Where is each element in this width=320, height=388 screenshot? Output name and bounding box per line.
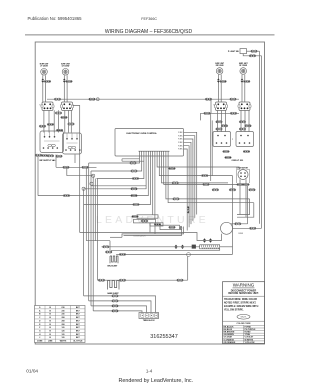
wire EOC right exit 5 [184, 146, 190, 228]
wire EOC pin 7 down [152, 156, 154, 215]
surface unit right-front [240, 68, 247, 75]
wire lock motor feed drop [239, 167, 241, 170]
svg-text:LOCK MOTOR: LOCK MOTOR [236, 168, 248, 170]
disconnect lamp lead 2 [209, 238, 212, 242]
wire right-rear burner lead R [220, 74, 222, 102]
wire switch-to-control link L4 [58, 110, 60, 132]
watermark [96, 214, 209, 226]
footer page number [146, 368, 153, 373]
wire switch-to-control link L2 [48, 110, 50, 132]
svg-text:P-BK: P-BK [178, 139, 183, 141]
connector S3 feed [204, 112, 211, 114]
connector lock motor 1 [237, 183, 244, 185]
connector pair C1 [216, 121, 223, 123]
svg-text:COLOR CODE: COLOR CODE [236, 323, 251, 325]
svg-text:LR 1250W: LR 1250W [62, 66, 70, 68]
svg-text:T-TAN: T-TAN [245, 333, 251, 336]
surface switch S1 designator [39, 105, 41, 107]
connector pair A5 [68, 123, 75, 125]
connector broil out [119, 253, 126, 255]
disconnect latch [180, 226, 183, 230]
door lock motor M1 [238, 170, 248, 180]
wire terminal block feed L1 [84, 296, 156, 313]
warning title [233, 283, 255, 288]
wire pin stub a [122, 158, 140, 160]
surface unit left-front label 2 [40, 66, 48, 68]
wire left-rear burner lead R [66, 75, 68, 102]
svg-text:EXAMPLE: GREEN WIRE WITH: EXAMPLE: GREEN WIRE WITH [224, 305, 259, 308]
oven light switch box [240, 49, 247, 54]
connector EOC left 4 [131, 188, 138, 190]
page header model number [141, 17, 157, 21]
wire EOC pin 2 to left [91, 156, 142, 171]
surface unit right-rear [216, 68, 223, 75]
wire bake riser [187, 257, 189, 281]
warning divider 2 [223, 320, 265, 322]
junction node J1 [92, 174, 95, 177]
connector right V5 [249, 189, 256, 191]
svg-text:GY-GRAY: GY-GRAY [224, 336, 233, 339]
connector pair D1 [223, 150, 230, 152]
svg-text:SURF. UNIT: SURF. UNIT [40, 64, 49, 66]
connector EOC left 2 [131, 170, 138, 172]
connector relay out 1 [251, 50, 258, 52]
electronic oven control U1 [115, 129, 184, 157]
connector right-rear lead R [220, 80, 227, 82]
latch switch bar 3 [150, 223, 163, 226]
junction node J2 [90, 182, 93, 185]
svg-text:P-BK: P-BK [178, 132, 183, 134]
broil element E1 [110, 256, 118, 263]
wire K boxes drop 2 [74, 155, 76, 164]
svg-text:01/04: 01/04 [26, 368, 38, 373]
wire S3 feed [201, 112, 240, 114]
wire right-rear burner lead L [217, 74, 219, 102]
wire left bundle 7 [97, 179, 99, 281]
wire EOC right exit 1 [184, 132, 197, 214]
wire terminal block feed G [93, 311, 142, 313]
wire left-front burner lead L [42, 75, 44, 102]
svg-text:FEF366C: FEF366C [141, 17, 157, 21]
svg-text:BK7: BK7 [76, 334, 80, 336]
connector top bus [205, 98, 212, 100]
svg-text:J: J [39, 337, 40, 339]
connector pair D2 [243, 150, 250, 152]
wire mid link [92, 185, 147, 187]
svg-text:208: 208 [62, 317, 65, 319]
surface unit right-front label [239, 63, 248, 65]
surface switch S2 (left-rear) terminals [60, 103, 73, 109]
wire right vertical V1 [210, 113, 212, 181]
svg-text:BRL ELMNT: BRL ELMNT [108, 265, 119, 267]
connector lower bundle [187, 207, 189, 214]
svg-text:BK7: BK7 [76, 324, 80, 326]
wire top bus to right switches [47, 98, 239, 100]
surface unit left-rear [62, 69, 69, 76]
wire broil lead up [109, 241, 111, 251]
junction node bus [96, 98, 99, 101]
latch switch bar 1 [137, 215, 158, 218]
connector pair B4 [56, 155, 63, 157]
wire EOC pin 3 to left [97, 156, 144, 179]
wire broil supply [102, 246, 200, 248]
warning title underline [233, 287, 255, 289]
tracer example connector [237, 315, 250, 320]
connector pair C2 [221, 125, 228, 127]
wire left bundle 1 [83, 189, 85, 296]
wire S2 to bundle [73, 106, 80, 233]
svg-text:BK7: BK7 [76, 314, 80, 316]
wire EOC pin 11 to right [162, 156, 229, 183]
wire switch-to-control link L6 [68, 110, 70, 132]
connector EOC right b [201, 174, 208, 176]
EOC right pin label 1 [178, 132, 183, 134]
label oven sw [232, 160, 244, 162]
svg-text:ZONE: ZONE [37, 341, 43, 343]
junction node J4 [187, 253, 191, 257]
wattage legend table [35, 306, 86, 343]
wire left-rear burner lead L [63, 75, 65, 102]
connector latch 3 [154, 223, 161, 225]
terminal block lugs [141, 314, 158, 318]
EOC right pin label 3 [178, 139, 183, 141]
EOC right pin label 4 [178, 142, 183, 144]
wire EOC right exit 2 [184, 136, 195, 218]
svg-text:230: 230 [62, 314, 65, 316]
wire left-front burner lead R [45, 75, 47, 102]
svg-text:BAKE ELMNT: BAKE ELMNT [107, 292, 119, 295]
wire right switch link R2 [221, 110, 223, 132]
disconnect broil supply 1 [175, 245, 178, 249]
svg-text:RF 1250W: RF 1250W [239, 65, 247, 67]
disconnect plug left-front lead L [41, 78, 44, 82]
svg-text:WARNING: WARNING [233, 283, 255, 288]
latch switch bar 2 [134, 219, 156, 223]
wire EOC pin 5 to left [38, 156, 148, 196]
page title [105, 29, 193, 35]
svg-text:SURF. UNIT: SURF. UNIT [215, 63, 224, 65]
header rule [25, 34, 275, 36]
wire terminal block feed N [89, 301, 151, 313]
footer date [26, 368, 38, 373]
warning paragraph line 3 [224, 305, 259, 308]
surface switch S3 designator [213, 105, 215, 107]
wire bus drop to S3 feed [210, 99, 212, 113]
EOC right pin label 6 [178, 149, 183, 151]
svg-text:Rendered by LeadVenture, Inc.: Rendered by LeadVenture, Inc. [118, 378, 193, 384]
connector pair A1 [55, 112, 62, 114]
wire left bundle 5 [92, 176, 94, 311]
svg-text:BK-BLACK: BK-BLACK [224, 325, 235, 328]
svg-text:BK7: BK7 [76, 310, 80, 312]
warmer element E3 [200, 245, 220, 249]
connector left-rear lead R [66, 80, 73, 82]
wire EOC pin 1 to left [89, 156, 140, 163]
connector pair A6 [56, 129, 63, 131]
connector EOC left 3 [132, 177, 139, 179]
connector terminal feed G [112, 310, 119, 312]
connector right-front lead R [243, 80, 250, 82]
connector terminal feed L1 [112, 295, 119, 297]
wire oven lamp feed 1 [231, 223, 248, 225]
wire EOC pin 6 to left [84, 156, 151, 205]
connector latch 1 [132, 215, 139, 217]
svg-text:120: 120 [62, 337, 65, 339]
wire broil out [116, 253, 120, 255]
wire switch-to-control link L3 [53, 110, 55, 132]
latch cluster label [134, 235, 146, 238]
wire right-front burner lead L [241, 74, 243, 102]
wire EOC right exit 3 [184, 139, 193, 221]
bake element E2 [108, 281, 120, 290]
connector bus S3-S4 link [230, 98, 237, 100]
surface switch S3 (right-rear) terminals [214, 103, 227, 109]
svg-text:208: 208 [62, 324, 65, 326]
connector S3-S4 feed link [230, 112, 237, 114]
wire EOC pin 9 to right [157, 156, 239, 167]
svg-text:LINE: LINE [48, 341, 53, 343]
bake element label [107, 292, 119, 295]
svg-text:BK7: BK7 [76, 331, 80, 333]
svg-text:P-BK: P-BK [178, 149, 183, 151]
connector terminal feed N [112, 300, 119, 302]
connector EOC left 6 [133, 203, 140, 205]
wire switch-to-control link L5 [64, 110, 66, 132]
wire right bus 1 [259, 51, 261, 224]
connector relay out 2 [249, 55, 256, 57]
EOC pin header P1 [139, 151, 170, 155]
wire latch run A2 tail [110, 236, 122, 238]
wire latch run A3 [124, 229, 182, 236]
diagram border frame [35, 42, 264, 344]
connector oven lamp 1 [235, 223, 242, 225]
svg-text:INF SUPPLY VAL.: INF SUPPLY VAL. [40, 159, 57, 162]
connector pair D3 [225, 156, 232, 158]
svg-text:P. LIGHT SW.: P. LIGHT SW. [228, 51, 240, 53]
svg-text:230: 230 [62, 310, 65, 312]
wire EOC pin 12 to right [164, 156, 248, 185]
oven switch box R1 terminals [216, 135, 228, 144]
wire EOC pin 13 to right [166, 156, 250, 199]
connector pair C4 [239, 121, 246, 123]
svg-text:OR-ORANGE: OR-ORANGE [224, 341, 237, 344]
wire switch-to-control link L1 [43, 110, 45, 132]
svg-text:DOOR LATCH: DOOR LATCH [134, 235, 146, 238]
oven switch box R2 [236, 132, 254, 147]
connector bus S1-S2 link [54, 98, 61, 100]
connector left-front lead R [44, 80, 51, 82]
oven lamp label [238, 233, 244, 235]
wire K boxes drop 1 [55, 155, 57, 168]
wire oven lamp feed 2 [233, 227, 262, 229]
wire EOC right exit 6 [184, 149, 188, 231]
svg-text:230: 230 [61, 307, 64, 309]
svg-text:BK7: BK7 [76, 337, 80, 339]
connector bus mid [89, 98, 96, 100]
svg-text:BK7: BK7 [76, 307, 80, 309]
surface switch S2 (left-rear) [62, 102, 73, 111]
wire left bundle 4 [90, 171, 92, 306]
connector inf common 1 [63, 166, 70, 168]
surface switch S1 (left-front) [42, 102, 53, 111]
connector right V3 [229, 189, 236, 191]
svg-text:OVEN: OVEN [238, 233, 244, 235]
wire lock motor lead 1 [239, 179, 241, 214]
lock motor bracket [237, 170, 250, 184]
wire right vertical V4 [247, 184, 249, 223]
diagram part number [150, 334, 178, 340]
wire latch run A2 [122, 227, 184, 238]
svg-text:Publication No: 5995401865: Publication No: 5995401865 [28, 16, 83, 21]
svg-text:LEADVENTURE: LEADVENTURE [96, 214, 209, 226]
svg-text:BK7: BK7 [76, 317, 80, 319]
connector pair B3 [47, 155, 54, 157]
connector EOC right c [172, 182, 179, 184]
latch switch bar 4 [160, 225, 180, 229]
disconnect broil lead [105, 251, 112, 253]
disconnect plug right-rear lead L [217, 78, 220, 82]
svg-text:TERM. BLOCK: TERM. BLOCK [143, 320, 155, 322]
connector pair C5 [245, 125, 252, 127]
wire warmer to lamp [220, 246, 233, 248]
label between R boxes [232, 139, 234, 141]
wire bake out [98, 279, 188, 281]
surface unit left-front label [40, 64, 49, 66]
warning box frame [223, 282, 265, 344]
oven switch box R2 terminals [239, 135, 251, 144]
svg-text:P-BK: P-BK [178, 135, 183, 137]
connector EOC right e [173, 198, 180, 200]
wire broil to bus [125, 253, 233, 255]
wire left bundle 6 [94, 179, 96, 241]
connector right V2b [212, 189, 219, 191]
connector EOC left 5 [131, 194, 138, 196]
wire right switch link R4 [240, 110, 242, 132]
disconnect lamp lead [203, 238, 206, 242]
wire main run B [86, 240, 110, 242]
disconnect plug right-front lead L [241, 78, 244, 82]
connector terminal feed L2 [112, 305, 119, 307]
svg-text:RR 1250W: RR 1250W [216, 65, 224, 67]
wire latch drop 2 [154, 223, 156, 234]
connector pair A2 [61, 116, 68, 118]
connector bake out 2 [177, 279, 184, 281]
wire right vertical V3 [232, 176, 234, 255]
wire EOC pin 8 down [154, 156, 156, 220]
connector inf supply [63, 194, 70, 196]
EOC right pin label 5 [178, 145, 183, 147]
warning line 2 [228, 292, 259, 295]
svg-text:BK7: BK7 [76, 327, 80, 329]
page header publication number [28, 16, 83, 21]
connector broil supply [103, 246, 110, 248]
control box K2 terminals [65, 133, 80, 151]
wire inf switch common [56, 166, 97, 168]
wire right switch link R1 [217, 110, 219, 132]
connector pair C3 [216, 128, 223, 130]
warning paragraph line 1 [224, 298, 257, 301]
wire lock motor lead 2 [245, 179, 247, 217]
warning line 1 [231, 289, 257, 292]
surface switch S4 (right-front) terminals [238, 103, 251, 109]
wire right switch link R5 [244, 110, 246, 132]
junction node J3 [82, 187, 85, 190]
wire right vertical V2 [211, 120, 213, 175]
surface unit left-rear label 2 [62, 66, 70, 68]
svg-text:UL STYLE: UL STYLE [73, 341, 83, 343]
svg-text:TRACER WIRE: WIRE COLOR: TRACER WIRE: WIRE COLOR [224, 298, 257, 301]
svg-text:120: 120 [62, 331, 65, 333]
svg-text:NOTED FIRST, STRIPE NEXT.: NOTED FIRST, STRIPE NEXT. [224, 303, 257, 305]
connector inf common 2 [82, 166, 89, 168]
connector bake left [98, 279, 105, 281]
connector pair B2 [41, 154, 48, 156]
svg-text:120: 120 [62, 334, 65, 336]
wire terminal block feed L2 [91, 306, 147, 313]
wire EOC right exit 4 [184, 142, 192, 224]
connector pair C6 [239, 128, 246, 130]
warning paragraph line 2 [224, 303, 257, 305]
control box K1 terminals [43, 131, 60, 149]
terminal block label [143, 320, 155, 322]
oven light switch label [228, 51, 240, 53]
connector pair B1 [35, 154, 42, 156]
control box left (surface control) K1 [40, 131, 64, 153]
svg-text:OVEN LT. SW.: OVEN LT. SW. [232, 160, 244, 162]
connector bake out 1 [119, 279, 126, 281]
wire switch-to-control link L7 [70, 110, 72, 132]
wire main run A [80, 233, 222, 241]
surface unit right-front label 2 [239, 65, 247, 67]
wire right switch link R3 [225, 110, 227, 132]
disconnect plug left-rear lead L [63, 78, 66, 82]
wire latch drop 1 [149, 223, 151, 233]
connector pair A3 [47, 123, 54, 125]
wire right bus 2 [261, 56, 263, 229]
wire EOC pin 14 to right [168, 156, 254, 203]
surface unit right-rear label 2 [216, 65, 224, 67]
wire left bundle 2 [85, 167, 87, 240]
footer rendered-by credit [118, 378, 193, 384]
label inf switch [40, 159, 57, 162]
svg-text:O-ORANGE: O-ORANGE [224, 338, 235, 341]
connector lock motor 2 [243, 183, 250, 185]
wire relay to right bus 2 [243, 54, 261, 56]
surface switch S1 (left-front) terminals [41, 103, 54, 109]
disconnect broil supply 2 [181, 245, 184, 249]
wire right vertical V5 [237, 199, 250, 215]
connector latch 2 [141, 220, 148, 222]
surface switch S3 (right-rear) [216, 102, 227, 111]
svg-text:P-BK: P-BK [178, 145, 183, 147]
svg-text:Y-YELLOW: Y-YELLOW [245, 342, 255, 344]
surface unit left-front [41, 69, 48, 76]
svg-text:316255347: 316255347 [150, 334, 178, 340]
svg-text:WIRING DIAGRAM – FEF366CB/Q/SD: WIRING DIAGRAM – FEF366CB/Q/SD [105, 29, 193, 35]
svg-text:ELECTRONIC OVEN CONTROL: ELECTRONIC OVEN CONTROL [127, 133, 158, 135]
color code heading [236, 323, 251, 325]
oven lamp [221, 222, 233, 234]
oven switch box R1 [213, 132, 231, 147]
svg-text:WATTS: WATTS [60, 340, 67, 343]
svg-text:BK7: BK7 [76, 320, 80, 322]
surface unit left-rear label [61, 64, 70, 66]
terminal block TB1 [139, 313, 159, 319]
svg-text:GN-YL: GN-YL [240, 317, 247, 319]
connector EOC left 1 [130, 162, 137, 164]
EOC right pin label 2 [178, 135, 183, 137]
wire pin stub b [122, 160, 144, 162]
